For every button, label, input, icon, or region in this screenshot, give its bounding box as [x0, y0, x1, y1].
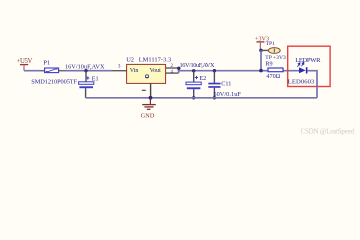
test point TP1 [268, 48, 280, 54]
plus mark E2 [195, 76, 198, 79]
svg-text:TP1: TP1 [266, 41, 276, 47]
junction GND [149, 96, 153, 100]
regulator U2 body [127, 64, 166, 83]
fuse P1 pins [41, 70, 45, 72]
selection box around LED [288, 46, 330, 86]
svg-text:LM1117-3.3: LM1117-3.3 [139, 57, 172, 64]
junction rail tee [259, 69, 263, 73]
wire U2 out to LED corner [179, 70, 300, 72]
junction E2 bottom [192, 96, 195, 99]
resistor R9 body [268, 68, 283, 72]
wire E1 top stem [85, 71, 87, 82]
wire C11 bottom stem [213, 88, 215, 98]
capacitor C11 [208, 83, 220, 88]
pin 1 GND of U2 [150, 83, 152, 97]
ground symbol GND [141, 98, 156, 120]
svg-text:Vout: Vout [150, 68, 162, 74]
power port +3V3 [255, 36, 269, 51]
svg-text:P1: P1 [43, 60, 50, 67]
plus mark E1 [86, 76, 89, 79]
bottom ground rail [86, 97, 317, 99]
pin number 1 mark [142, 89, 146, 91]
junction E1 top [84, 69, 87, 72]
capacitor E2 [186, 82, 201, 89]
svg-text:R9: R9 [265, 60, 272, 67]
svg-text:C11: C11 [221, 81, 231, 88]
svg-text:LED0603: LED0603 [288, 78, 315, 85]
junction C11 top [213, 69, 216, 72]
svg-text:16V/10uF,AVX: 16V/10uF,AVX [180, 62, 215, 69]
wire E1 bottom stem [85, 88, 87, 98]
svg-text:CSDN @LostSpeed: CSDN @LostSpeed [301, 127, 355, 135]
junction TP1 tee [259, 49, 263, 53]
LED diode symbol [298, 62, 308, 73]
svg-text:U2: U2 [126, 57, 134, 64]
pin 2 of U2 [166, 67, 179, 69]
wire C11 top stem [213, 71, 215, 83]
capacitor E1 [79, 82, 94, 88]
svg-text:470Ω: 470Ω [266, 73, 280, 80]
svg-text:E2: E2 [199, 75, 206, 82]
wire LED cathode to bottom rail [307, 71, 317, 98]
svg-text:SMD1210P005TF: SMD1210P005TF [31, 78, 77, 85]
fuse P1 body [45, 68, 59, 73]
gnd glyph inside U2 [145, 75, 149, 78]
wire E2 bottom stem [193, 89, 195, 98]
pin 3 of U2 [113, 70, 127, 72]
wire to TP1 [261, 49, 269, 51]
junction E2 top [192, 69, 195, 72]
wire joining pins 2 and 4 [178, 68, 180, 73]
svg-text:GND: GND [141, 112, 155, 119]
wire E2 top stem [193, 71, 195, 82]
wire U5V to fuse [24, 70, 41, 72]
junction pins 2-4 [177, 67, 180, 70]
pin 4 of U2 [166, 72, 179, 74]
power port +U5V [17, 58, 33, 71]
svg-text:50V/0.1uF: 50V/0.1uF [213, 91, 241, 98]
svg-text:Vin: Vin [130, 68, 139, 74]
wire 3V3 down to rail [260, 50, 262, 70]
svg-text:E1: E1 [92, 76, 99, 83]
junction C11 bottom [213, 96, 216, 99]
wire fuse to U2 pin 3 [66, 70, 113, 72]
